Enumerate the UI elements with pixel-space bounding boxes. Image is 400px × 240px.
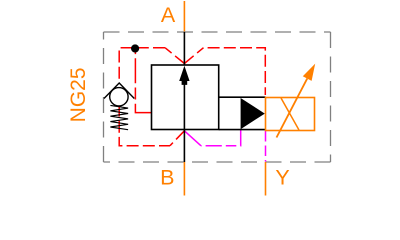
pilot line red: V dip left diagonal [165,48,184,64]
pilot line red: supply loop over valve top [204,48,266,95]
solenoid box [266,98,315,131]
line A continuation (black) [183,32,185,66]
port line B (orange) [183,162,185,196]
pilot line red: diagonal to valve bottom [170,131,184,146]
pilot line red: below check valve to bottom corner [119,105,170,146]
drain line magenta: solenoid to port Y [265,131,267,162]
svg-text:A: A [161,3,176,27]
junction dot [131,44,139,52]
channel lower line [219,129,266,131]
drain line magenta: run to triangle stub [201,130,241,146]
pilot line red: left run through check valve [119,48,165,82]
solenoid X diagonal [281,98,299,130]
pilot line red: branch to valve left side [135,48,151,112]
svg-text:Y: Y [275,166,289,190]
adjustment arrow head [303,64,315,81]
port line A (orange) [183,1,185,33]
channel upper line [219,96,266,98]
svg-text:NG25: NG25 [67,67,90,122]
check valve seat [104,83,134,99]
drain line magenta: valve bottom to triangle [184,131,201,146]
pilot line red: V dip right diagonal [184,48,203,64]
check valve spring [110,105,128,129]
enclosure dashed boundary [104,32,331,162]
main valve body [152,65,219,130]
valve center line to port B [183,84,185,162]
adjustment arrow shaft [277,79,308,138]
flow triangle [241,98,265,129]
poppet arrow [179,66,189,85]
svg-text:B: B [160,166,174,190]
check valve ball [110,88,128,106]
port line Y (orange) [265,162,267,196]
